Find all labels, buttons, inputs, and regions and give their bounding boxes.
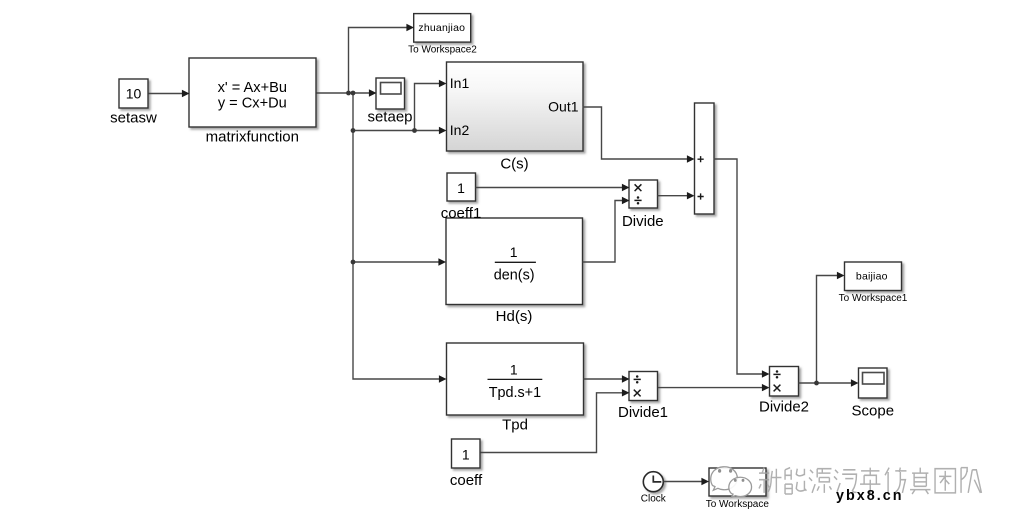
svg-text:Hd(s): Hd(s)	[496, 308, 533, 325]
svg-text:coeff1: coeff1	[441, 205, 482, 222]
svg-text:coeff: coeff	[450, 472, 483, 489]
svg-text:1: 1	[510, 361, 518, 377]
svg-text:To Workspace1: To Workspace1	[839, 293, 908, 304]
svg-text:In2: In2	[450, 122, 470, 138]
svg-text:Divide1: Divide1	[618, 404, 668, 421]
svg-text:baijiao: baijiao	[856, 271, 888, 283]
svg-text:Out1: Out1	[548, 98, 579, 114]
svg-text:setasw: setasw	[110, 109, 157, 126]
svg-text:Scope: Scope	[852, 403, 895, 420]
svg-text:1: 1	[457, 180, 465, 196]
svg-text:Tpd.s+1: Tpd.s+1	[489, 385, 541, 401]
svg-text:x' = Ax+Bu: x' = Ax+Bu	[218, 80, 287, 96]
svg-text:1: 1	[510, 244, 518, 260]
svg-text:setaep: setaep	[367, 109, 412, 126]
svg-text:To Workspace: To Workspace	[706, 499, 770, 510]
svg-text:C(s): C(s)	[500, 156, 528, 173]
svg-text:Clock: Clock	[641, 493, 667, 504]
svg-text:ybx8.cn: ybx8.cn	[836, 488, 904, 504]
svg-text:Divide2: Divide2	[759, 399, 809, 416]
svg-text:matrixfunction: matrixfunction	[206, 129, 299, 146]
svg-text:In1: In1	[450, 75, 470, 91]
svg-text:den(s): den(s)	[494, 268, 535, 284]
svg-text:10: 10	[126, 86, 142, 102]
svg-text:zhuanjiao: zhuanjiao	[418, 22, 465, 34]
svg-text:To Workspace2: To Workspace2	[408, 45, 477, 56]
svg-text:Tpd: Tpd	[502, 416, 528, 433]
svg-text:y = Cx+Du: y = Cx+Du	[218, 95, 287, 111]
svg-text:1: 1	[462, 446, 470, 462]
svg-text:Divide: Divide	[622, 213, 664, 230]
